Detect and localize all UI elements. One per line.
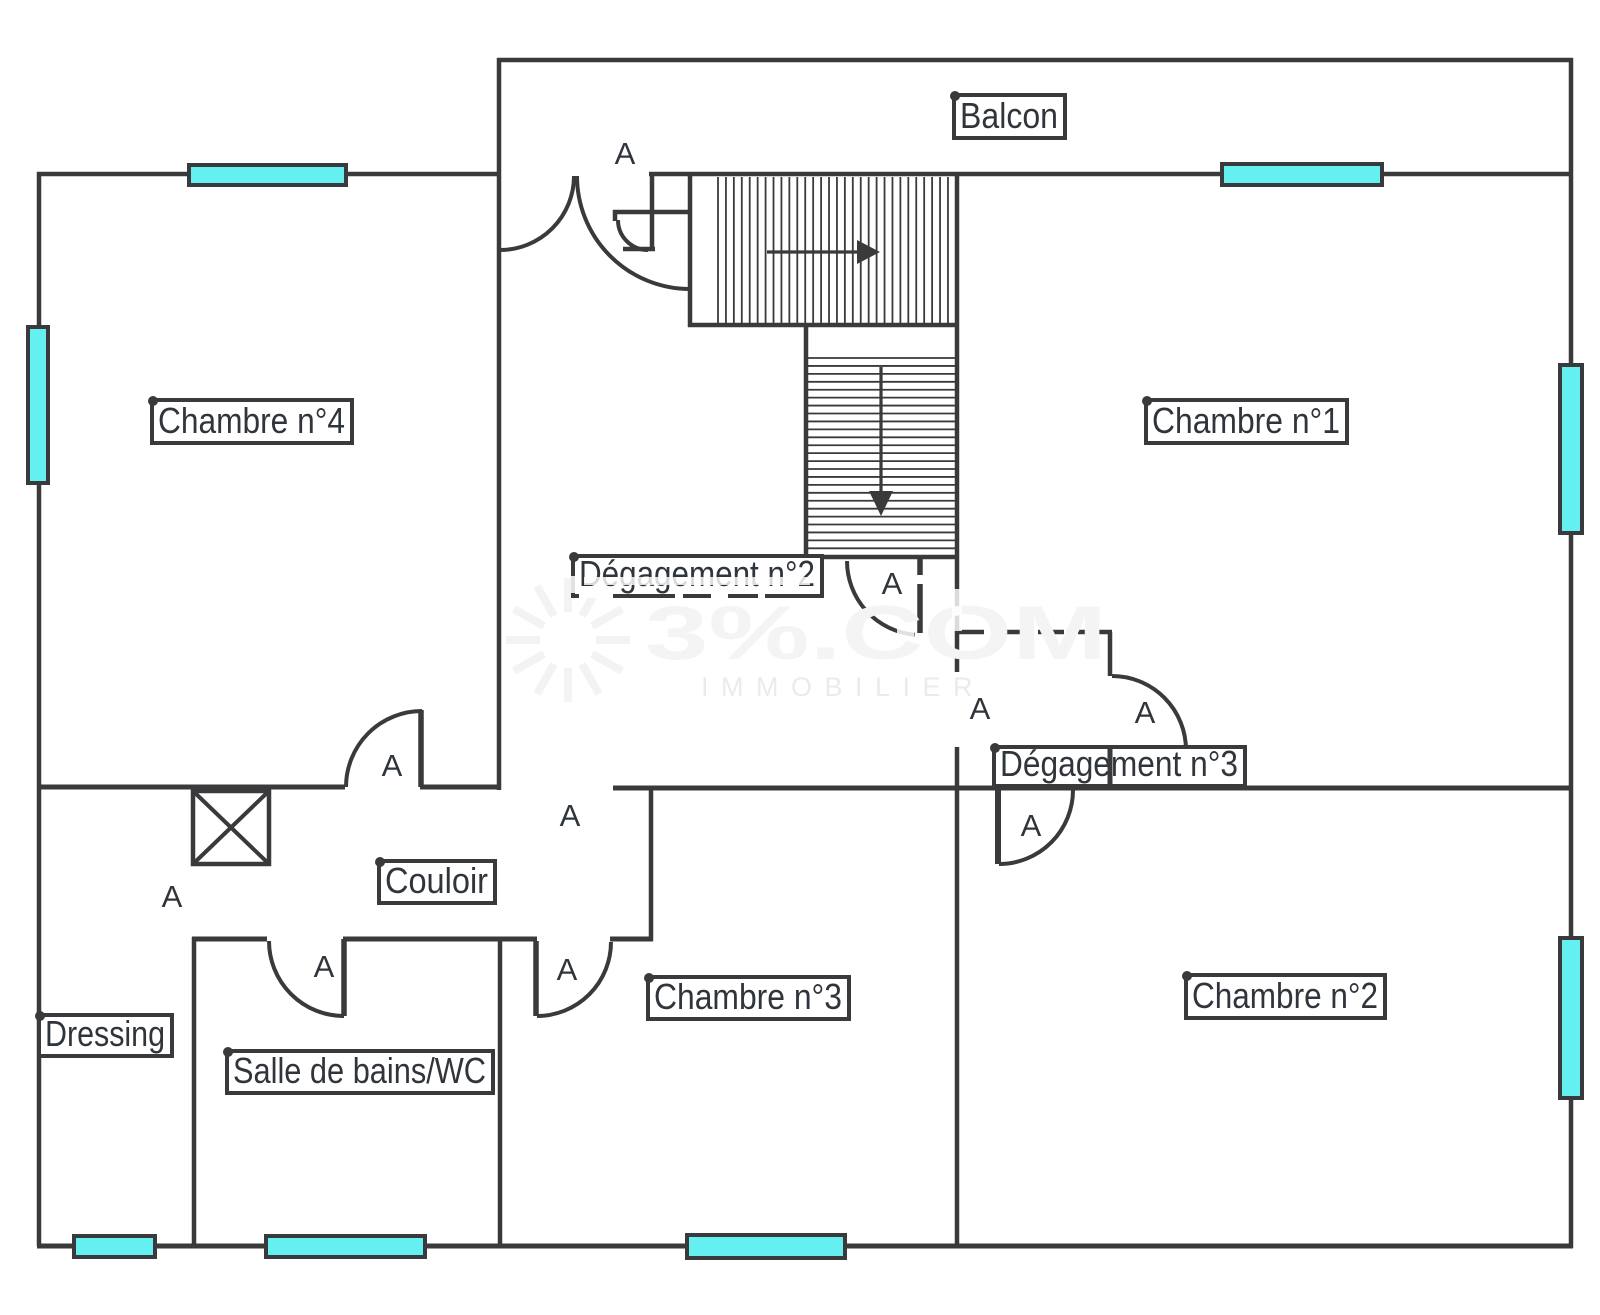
svg-text:A: A — [382, 748, 403, 783]
svg-text:Chambre n°1: Chambre n°1 — [1152, 400, 1340, 441]
svg-text:A: A — [560, 798, 581, 833]
svg-text:Chambre n°3: Chambre n°3 — [654, 976, 842, 1017]
svg-text:A: A — [615, 136, 636, 171]
svg-text:A: A — [1135, 695, 1156, 730]
svg-text:A: A — [882, 566, 903, 601]
svg-text:A: A — [557, 952, 578, 987]
svg-text:A: A — [162, 879, 183, 914]
svg-text:A: A — [1021, 808, 1042, 843]
svg-text:IMMOBILIER: IMMOBILIER — [701, 672, 985, 702]
svg-text:Dégagement n°3: Dégagement n°3 — [1000, 743, 1238, 784]
svg-text:Couloir: Couloir — [385, 860, 488, 901]
svg-text:Balcon: Balcon — [960, 95, 1058, 136]
svg-text:A: A — [314, 949, 335, 984]
svg-text:Chambre n°2: Chambre n°2 — [1192, 975, 1378, 1016]
svg-text:3%.COM: 3%.COM — [645, 591, 1107, 676]
svg-text:A: A — [970, 691, 991, 726]
svg-text:Salle de bains/WC: Salle de bains/WC — [233, 1050, 486, 1091]
svg-text:Chambre n°4: Chambre n°4 — [158, 400, 345, 441]
svg-text:Dressing: Dressing — [45, 1013, 165, 1054]
svg-text:Dégagement n°2: Dégagement n°2 — [579, 553, 815, 594]
